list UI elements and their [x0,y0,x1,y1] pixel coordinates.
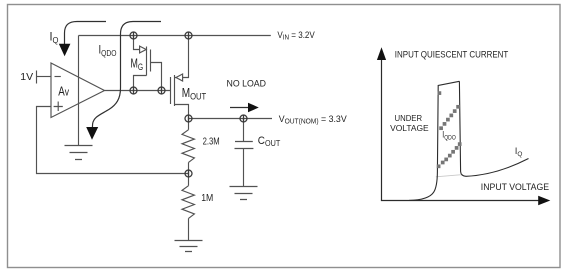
svg-text:NO LOAD: NO LOAD [227,79,267,89]
op-amp minus input mark [55,76,61,78]
wire VOUT node down to resistor R1 [188,119,190,130]
curve: undervoltage rising edge (band left) [409,81,459,200]
transistor MG drain lead [134,76,147,91]
svg-text:VOUT(NOM) = 3.3V: VOUT(NOM) = 3.3V [279,114,348,126]
transistor MOUT source arrow [176,74,183,81]
transistor MG gate bar [150,50,152,72]
transistor MOUT drain lead [175,105,189,119]
wire VOUT rail [189,118,273,120]
hatch chain upper [439,105,460,130]
faint hidden boundary line [436,175,463,177]
hatch square top corner [438,91,442,95]
ground (op-amp) [65,146,93,160]
op-amp U1 triangle [51,63,105,118]
node junction J5 VOUT [185,115,192,123]
op-amp plus input mark [54,102,63,112]
1V source terminal bar [36,71,38,84]
wire noninverting input feedback left leg [37,107,189,174]
no-load arrow [230,103,259,113]
graph y-axis arrowhead [377,47,386,60]
transistor MOUT channel bar [174,75,176,106]
wire COUT to ground [243,149,245,187]
wire 1V to inverting input [37,76,52,78]
resistor R1 2.3M zigzag [182,130,194,163]
wire op-amp supply/ground vertical [78,36,80,146]
ground (COUT) [230,187,258,200]
svg-text:VOLTAGE: VOLTAGE [390,124,429,133]
svg-text:INPUT QUIESCENT CURRENT: INPUT QUIESCENT CURRENT [395,49,509,59]
node junction J7 feedback [185,170,192,178]
wire op-amp output mid rail [105,90,171,92]
wire feedback node down to resistor R2 [188,174,190,186]
transistor MG source lead [134,36,140,50]
svg-text:Av: Av [58,85,69,99]
resistor R2 1M zigzag [182,186,194,219]
wire VOUT node to capacitor COUT [243,119,245,142]
transistor MOUT gate bar [170,77,172,104]
curve: band right edge dropping [459,81,466,176]
graph x-axis arrowhead [538,196,550,206]
ground (R2 1M) [175,241,203,252]
node junction J1 [130,32,137,40]
curve: IQ tail [466,159,529,177]
graph x-axis [381,200,540,202]
wire R2 to ground [188,218,190,240]
wire VIN top rail [79,35,271,37]
svg-text:1M: 1M [201,192,213,204]
node junction J3 [130,87,137,95]
IQ current arrow [59,22,106,57]
svg-text:INPUT VOLTAGE: INPUT VOLTAGE [481,182,549,192]
transistor MOUT source lead [175,36,189,78]
svg-text:1V: 1V [20,71,33,83]
svg-text:2.3M: 2.3M [203,135,220,147]
graph y-axis [381,58,383,201]
transistor MG gate lead [151,63,162,91]
wire R1 to feedback node [188,162,190,173]
IQDO current arrow [86,22,161,140]
node junction J4 [158,87,165,95]
capacitor COUT plates [235,142,254,149]
transistor MG channel bar [146,47,148,76]
node junction J6 COUT top [240,115,247,123]
hatch chain lower [437,142,462,168]
transistor MG source arrow [140,46,147,53]
node junction J2 [185,32,192,40]
svg-text:UNDER: UNDER [395,114,423,123]
